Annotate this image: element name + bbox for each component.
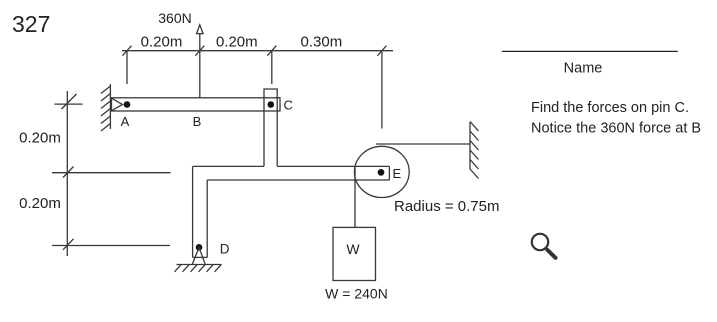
svg-text:E: E <box>393 166 402 181</box>
svg-text:Notice the 360N force at B: Notice the 360N force at B <box>531 121 701 137</box>
svg-text:360N: 360N <box>158 10 191 26</box>
svg-text:Radius = 0.75m: Radius = 0.75m <box>394 198 499 215</box>
rope down to weight <box>354 166 356 227</box>
left dim tick 2 slash <box>63 167 74 178</box>
svg-text:W: W <box>346 241 360 257</box>
force line at B <box>199 34 201 98</box>
weight box W <box>333 227 376 280</box>
svg-text:Name: Name <box>564 60 603 76</box>
pin A <box>124 101 131 108</box>
left dim tick 1 slash <box>62 94 77 109</box>
member DE inner vertical edge <box>206 180 208 257</box>
left wall hatching <box>101 86 110 131</box>
extension line at A <box>126 51 128 84</box>
pulley circle at E <box>354 146 409 197</box>
svg-text:D: D <box>220 242 230 257</box>
extension line at pulley <box>381 51 383 129</box>
rope to right wall <box>376 143 470 145</box>
svg-text:0.20m: 0.20m <box>216 33 258 50</box>
svg-text:Find the forces on pin C.: Find the forces on pin C. <box>531 100 689 116</box>
svg-text:C: C <box>284 98 293 113</box>
svg-text:W = 240N: W = 240N <box>325 286 388 302</box>
member DE outer vertical edge <box>192 166 194 257</box>
ground hatching at D <box>175 265 222 272</box>
svg-text:A: A <box>121 114 130 129</box>
right wall line <box>469 122 471 169</box>
svg-text:0.20m: 0.20m <box>141 33 183 50</box>
pin E <box>378 169 385 176</box>
left dimension line <box>66 91 68 256</box>
left dim tick 3 line <box>52 245 170 247</box>
pin support triangle at A <box>112 98 123 111</box>
svg-text:0.30m: 0.30m <box>301 33 343 50</box>
pin C <box>268 101 275 108</box>
left dim tick 3 slash <box>63 239 74 250</box>
extension line at C <box>271 51 273 84</box>
top dimension line <box>122 50 393 52</box>
left dim tick 2 line <box>52 172 171 174</box>
top dim tick at B <box>195 46 204 56</box>
beam AC <box>112 98 281 111</box>
member DE inner horizontal edge <box>207 179 389 181</box>
member DE end cap at E <box>388 166 390 180</box>
left dim tick 1 crossbar <box>54 103 82 105</box>
member DE top edge right segment <box>277 165 389 167</box>
ground line at D <box>177 264 222 266</box>
support triangle at D <box>192 247 205 264</box>
pin D <box>196 244 203 251</box>
member DE bottom cap at D <box>193 256 208 258</box>
force arrowhead <box>197 25 204 34</box>
svg-text:0.20m: 0.20m <box>19 195 61 212</box>
right wall hatching <box>470 122 479 179</box>
svg-text:B: B <box>193 114 202 129</box>
member DE top edge left segment <box>193 165 264 167</box>
magnifier icon <box>532 234 556 258</box>
top dim tick at C <box>267 46 276 56</box>
member CD vertical bar <box>264 89 277 166</box>
top dim tick at pulley <box>377 46 386 56</box>
name line <box>502 50 678 52</box>
svg-text:0.20m: 0.20m <box>19 130 61 147</box>
top dim tick at A <box>123 46 132 56</box>
left wall line <box>109 84 111 129</box>
svg-text:327: 327 <box>12 11 50 37</box>
